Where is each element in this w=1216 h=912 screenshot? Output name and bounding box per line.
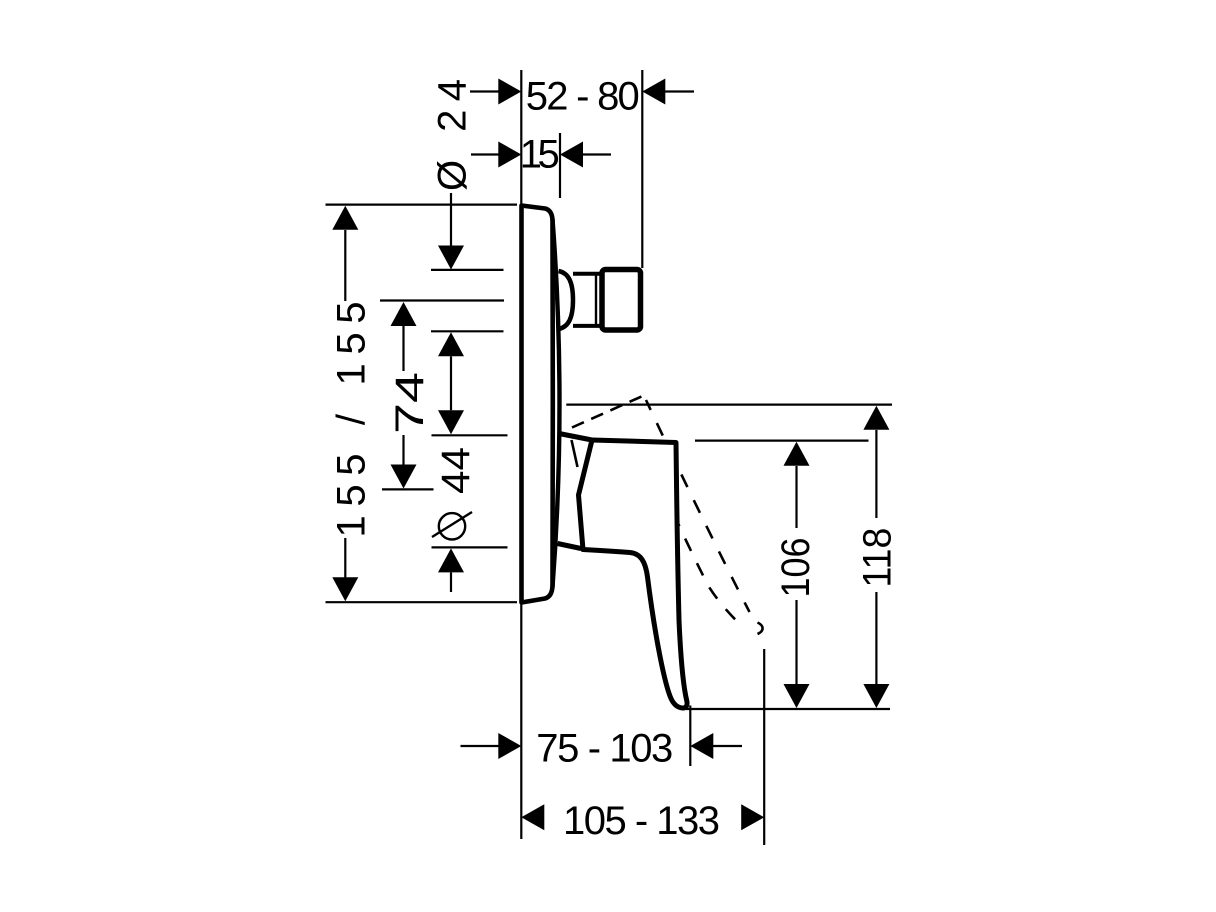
- svg-text:52 - 80: 52 - 80: [526, 75, 640, 119]
- svg-text:44: 44: [434, 447, 478, 494]
- svg-text:105 - 133: 105 - 133: [563, 799, 720, 843]
- svg-text:15: 15: [520, 133, 560, 177]
- svg-text:74: 74: [388, 372, 432, 434]
- svg-text:155 / 155: 155 / 155: [330, 302, 374, 538]
- svg-text:75 - 103: 75 - 103: [536, 727, 673, 771]
- svg-text:118: 118: [855, 528, 899, 588]
- svg-text:106: 106: [774, 538, 818, 598]
